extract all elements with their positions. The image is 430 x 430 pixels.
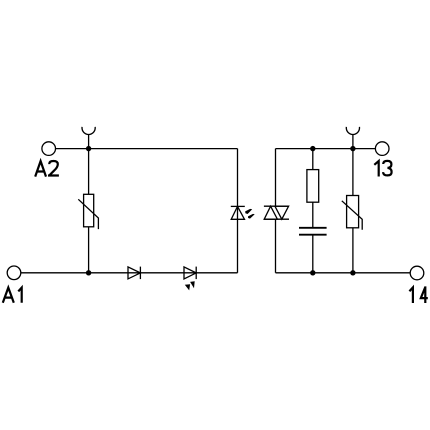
wire socket stem right: [352, 135, 354, 149]
wire top right rail: [276, 148, 376, 150]
wire bottom right rail: [276, 272, 411, 274]
LED V2 indicator: [184, 267, 196, 279]
diode V1 cathode bar: [139, 267, 141, 280]
triac triangle down: [275, 206, 289, 219]
wire varistor RU2 top lead: [352, 149, 354, 196]
varistor RU1 stroke: [78, 199, 98, 229]
capacitor C1 top plate: [299, 227, 327, 229]
wire top left (A2 to LED branch): [56, 148, 238, 150]
node junction varistor bottom: [350, 270, 355, 275]
socket symbol right (test plug arc): [346, 127, 359, 135]
wire socket stem left: [88, 135, 90, 149]
varistor RU1 body: [84, 194, 94, 227]
node junction A1/varistor: [86, 270, 91, 275]
node junction varistor top: [350, 146, 355, 151]
wire resistor to capacitor: [312, 202, 314, 228]
wire bottom left (A1 to LED branch): [21, 272, 238, 274]
triac bottom rail: [264, 218, 289, 220]
terminal A1: [7, 266, 21, 280]
wire varistor branch lower: [88, 227, 90, 273]
terminal A2: [42, 142, 56, 156]
optocoupler LED triangle: [231, 206, 244, 219]
label A2: [35, 161, 59, 177]
label 14: [409, 286, 427, 303]
triac top rail: [264, 205, 289, 207]
wire triac lower: [275, 219, 277, 273]
label A1: [3, 288, 22, 303]
wire varistor RU2 bottom lead: [352, 228, 354, 273]
node junction capacitor bottom: [310, 270, 315, 275]
wire resistor top lead: [312, 149, 314, 170]
capacitor C1 bottom plate: [299, 234, 327, 236]
triac triangle up: [264, 206, 277, 219]
LED V2 light arrow 1: [185, 284, 190, 290]
socket symbol left (test plug arc): [82, 127, 95, 135]
optocoupler light arrow 1: [245, 209, 252, 214]
wire varistor branch upper: [88, 149, 90, 195]
terminal 13: [375, 142, 389, 156]
diode V1: [128, 267, 140, 279]
terminal 14: [410, 266, 424, 280]
LED V2 light arrow 2: [190, 281, 195, 288]
optocoupler light arrow 2: [248, 214, 255, 219]
resistor R1 body: [307, 170, 319, 203]
node junction A2/varistor: [86, 146, 91, 151]
wire triac upper: [275, 149, 277, 207]
optocoupler LED cathode bar: [231, 205, 245, 207]
node junction resistor top: [310, 146, 315, 151]
wire left branch vertical down: [237, 149, 239, 273]
LED V2 cathode bar: [195, 267, 197, 280]
varistor RU2 stroke: [342, 201, 362, 230]
wire capacitor bottom lead: [312, 235, 314, 273]
label 13: [374, 161, 391, 177]
varistor RU2 body: [347, 196, 359, 228]
